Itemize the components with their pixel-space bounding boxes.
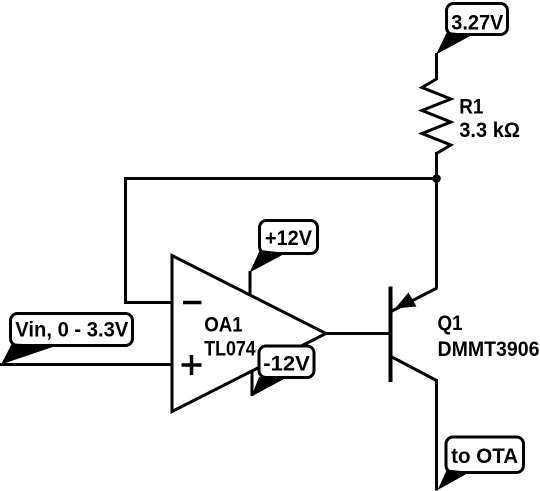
svg-text:3.27V: 3.27V <box>451 12 503 35</box>
svg-text:DMMT3906: DMMT3906 <box>438 338 540 361</box>
svg-text:R1: R1 <box>459 96 483 119</box>
wire: R1 bottom through node to Q1 emitter <box>435 152 438 289</box>
svg-text:-12V: -12V <box>263 353 310 376</box>
wire: feedback net from R1/Q1 emitter node to inverting input <box>126 179 437 303</box>
wire: Q1 collector down to OTA <box>435 379 438 491</box>
op-amp OA1 triangle <box>172 256 326 412</box>
wire: +12V power pin <box>249 271 252 295</box>
op-amp inverting input minus symbol <box>183 301 202 305</box>
transistor Q1 base bar <box>389 287 393 383</box>
junction node: R1 / feedback / Q1 emitter <box>432 174 441 183</box>
wire: -12V power pin <box>251 370 254 396</box>
wire: 3.27V supply to R1 top <box>435 53 438 80</box>
svg-text:TL074: TL074 <box>204 338 256 361</box>
svg-text:3.3 kΩ: 3.3 kΩ <box>459 119 520 142</box>
transistor Q1 collector diagonal <box>391 357 437 381</box>
op-amp non-inverting input plus symbol <box>182 355 202 375</box>
svg-text:to OTA: to OTA <box>451 445 518 468</box>
svg-text:+12V: +12V <box>265 227 312 250</box>
callout 3.27V supply <box>436 4 508 55</box>
svg-text:Q1: Q1 <box>438 312 463 335</box>
callout to OTA output <box>438 437 524 490</box>
resistor R1 zigzag <box>422 79 451 154</box>
svg-text:OA1: OA1 <box>204 314 243 337</box>
callout -12V supply <box>252 346 315 397</box>
wire: op-amp output to Q1 base <box>326 332 390 335</box>
callout Vin, 0 - 3.3V input <box>1 314 133 365</box>
wire: Vin source to op-amp non-inverting input <box>0 363 172 366</box>
transistor Q1 emitter diagonal <box>391 288 437 312</box>
transistor Q1 emitter PNP arrow <box>395 293 417 309</box>
callout +12V supply <box>250 221 318 273</box>
svg-text:Vin, 0 - 3.3V: Vin, 0 - 3.3V <box>15 319 128 342</box>
